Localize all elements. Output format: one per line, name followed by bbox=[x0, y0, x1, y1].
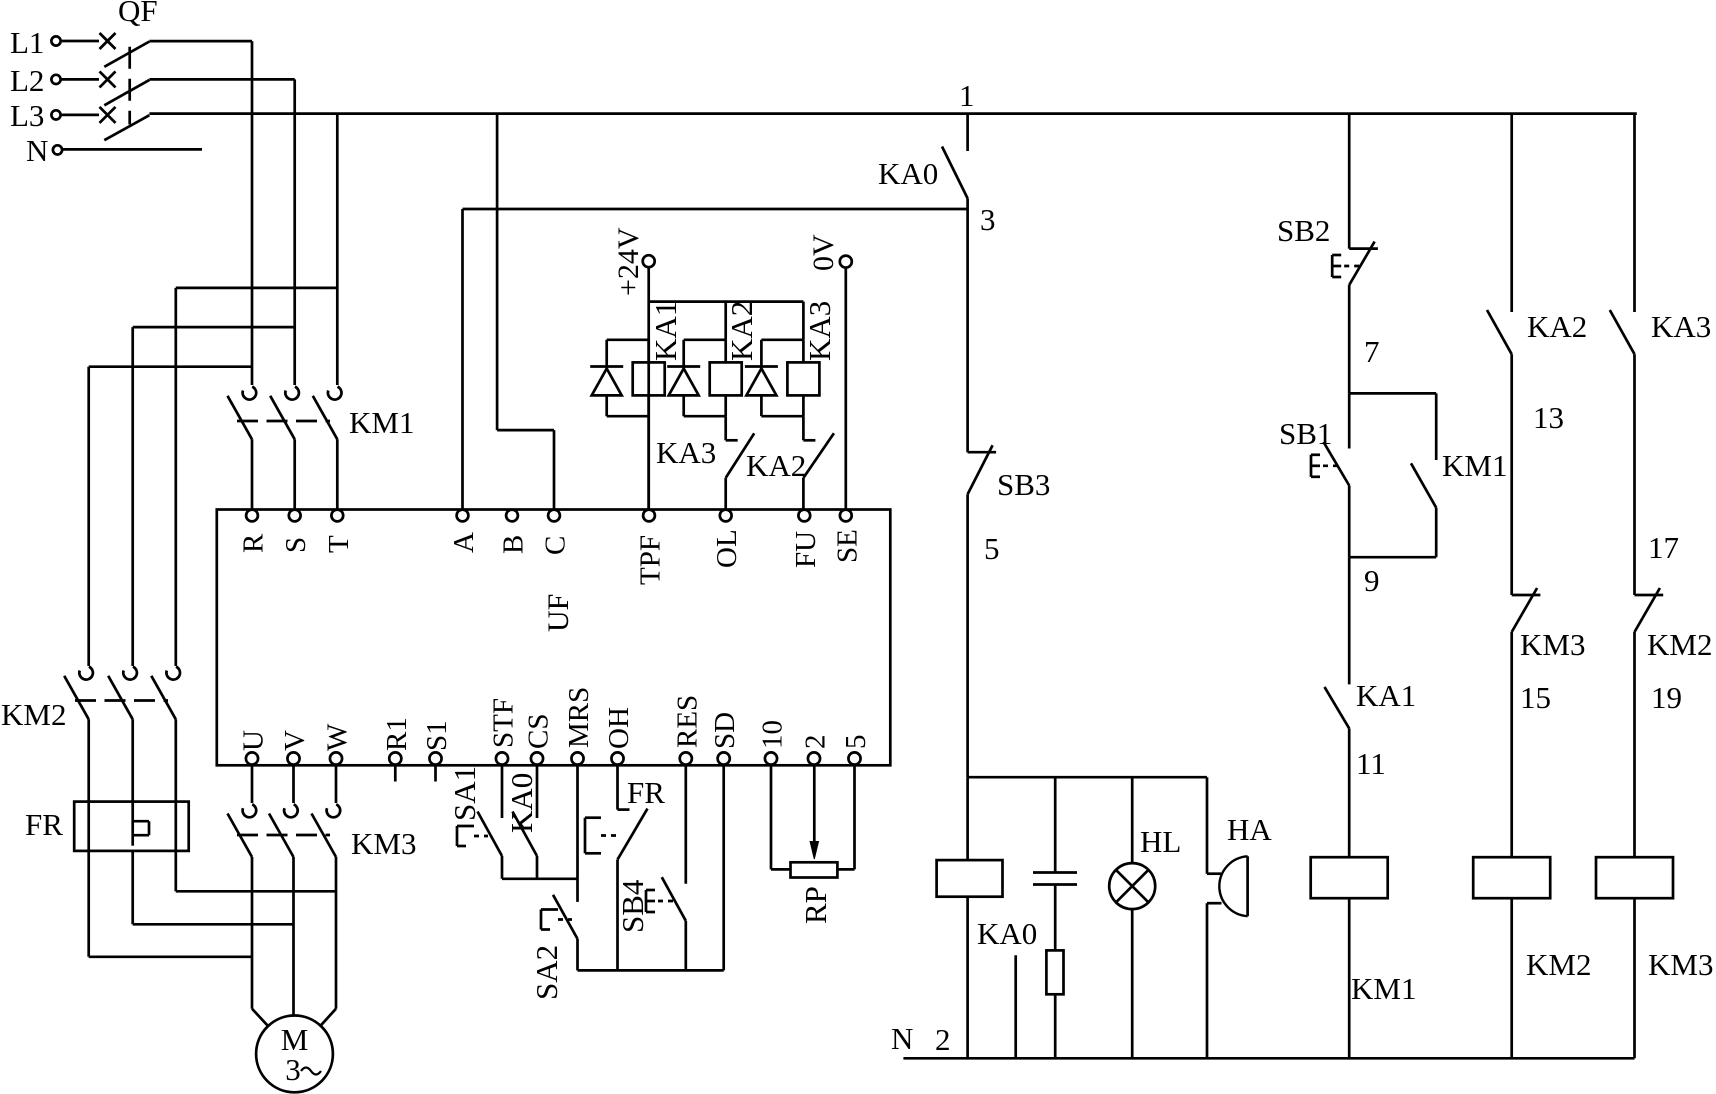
svg-text:KM1: KM1 bbox=[1442, 448, 1507, 483]
wire FR pole1 inside bbox=[87, 802, 90, 851]
wire node3 to SB3 bbox=[966, 209, 969, 452]
wire KA0 to node 3 bbox=[966, 198, 969, 209]
motor lead right bbox=[320, 1009, 336, 1027]
wire KA1 to TPF bbox=[647, 416, 650, 509]
UF terminal OH bbox=[603, 707, 635, 765]
svg-text:STF: STF bbox=[488, 698, 520, 748]
svg-text:13: 13 bbox=[1533, 400, 1564, 435]
wire KM2 pole 3 to FR bbox=[174, 719, 177, 801]
relay contact KA0 (NO) on CS bbox=[513, 812, 538, 857]
thermal relay contact FR (NC) on OH bbox=[618, 809, 648, 860]
svg-text:A: A bbox=[448, 532, 480, 553]
svg-text:SB1: SB1 bbox=[1279, 416, 1332, 451]
wire T phase tap bbox=[336, 114, 339, 385]
relay contact KA1 (NO) bbox=[1325, 687, 1350, 729]
selector switch SA2 (NO) on MRS bbox=[553, 895, 578, 939]
UF terminal R1 bbox=[381, 717, 413, 764]
wire KA3 to KM2 NC bbox=[1633, 354, 1636, 595]
UF terminal S bbox=[280, 510, 312, 553]
wire 0V to SE bbox=[844, 268, 847, 510]
wire KM3 coil to N bbox=[1633, 898, 1636, 1058]
wire KA3 coil drop bbox=[802, 302, 805, 340]
UF terminal C bbox=[540, 510, 572, 555]
svg-text:7: 7 bbox=[1364, 334, 1380, 369]
pushbutton SB1 (NO) bbox=[1324, 442, 1350, 486]
potentiometer RP body bbox=[791, 862, 838, 877]
svg-text:SD: SD bbox=[709, 712, 741, 749]
UF terminal TPF bbox=[635, 510, 667, 585]
breaker QF pole 3 blade bbox=[104, 115, 149, 140]
svg-text:U: U bbox=[238, 730, 270, 751]
svg-text:SB4: SB4 bbox=[615, 879, 650, 933]
svg-text:B: B bbox=[498, 535, 530, 554]
contactor interlock KM3 (NC) bbox=[1512, 588, 1541, 632]
wire FR3 to W junction bbox=[176, 851, 336, 891]
wire bottom junction bus bbox=[578, 969, 724, 972]
wire capacitor branch top bbox=[1054, 777, 1057, 872]
UF terminal 2 bbox=[800, 735, 832, 765]
svg-text:KM2: KM2 bbox=[1, 697, 66, 732]
wire 2 wiper bbox=[813, 765, 816, 843]
svg-text:N: N bbox=[26, 133, 48, 168]
wire KA2 coil drop bbox=[724, 302, 727, 340]
svg-text:SE: SE bbox=[831, 529, 863, 563]
stub wire at KA0 bbox=[1014, 955, 1017, 1058]
svg-text:R1: R1 bbox=[381, 717, 413, 751]
wire bus to KA2 contact bbox=[1510, 114, 1513, 312]
svg-text:L1: L1 bbox=[10, 25, 44, 60]
bottom bus wire 2 (N) bbox=[903, 1057, 1634, 1060]
contactor KM3 main contact pole 1 bbox=[228, 804, 257, 857]
svg-text:KA3: KA3 bbox=[802, 301, 837, 361]
svg-text:KA2: KA2 bbox=[724, 301, 759, 361]
svg-text:+24V: +24V bbox=[612, 227, 645, 296]
svg-text:V: V bbox=[279, 730, 311, 751]
svg-text:9: 9 bbox=[1364, 563, 1380, 598]
svg-text:W: W bbox=[322, 723, 354, 751]
svg-text:1: 1 bbox=[959, 78, 975, 113]
wire junction bus STF-CS-MRS bbox=[502, 877, 578, 880]
svg-text:KA2: KA2 bbox=[1527, 309, 1587, 344]
wire KM1 coil to N bbox=[1348, 898, 1351, 1058]
svg-text:KM3: KM3 bbox=[1520, 627, 1585, 662]
svg-text:KA2: KA2 bbox=[746, 448, 806, 483]
breaker QF pole 1 blade bbox=[104, 42, 149, 67]
pushbutton SB2 (NC) bbox=[1349, 242, 1378, 285]
wire KM3 pole3 to motor bbox=[335, 857, 338, 1009]
terminal N bbox=[26, 133, 62, 168]
SB2 actuator bbox=[1332, 255, 1359, 277]
svg-text:KM2: KM2 bbox=[1526, 947, 1591, 982]
wire KA3 unit down bbox=[802, 416, 805, 440]
svg-text:KA3: KA3 bbox=[656, 435, 716, 470]
motor lead left bbox=[252, 1009, 268, 1027]
UF terminal SE bbox=[831, 510, 863, 563]
relay contact KA3 (NC) on OL bbox=[726, 433, 755, 478]
svg-text:L2: L2 bbox=[10, 63, 44, 98]
wire KM3 NC to KM2 coil bbox=[1510, 632, 1513, 857]
svg-text:2: 2 bbox=[935, 1022, 951, 1057]
svg-text:KM2: KM2 bbox=[1647, 627, 1712, 662]
svg-text:SB2: SB2 bbox=[1277, 213, 1330, 248]
wire W down bbox=[335, 765, 338, 803]
motor M circle bbox=[256, 1016, 333, 1093]
wire C tap from bus bbox=[497, 114, 554, 510]
wire A to node 3 bbox=[463, 209, 968, 510]
svg-text:HA: HA bbox=[1227, 812, 1272, 847]
KM1 mechanical link bbox=[237, 420, 330, 423]
wire SB1 top bbox=[1348, 393, 1351, 448]
wire SA2 down bbox=[576, 939, 579, 971]
UF terminal 10 bbox=[757, 720, 789, 765]
svg-text:RES: RES bbox=[671, 695, 703, 748]
wire branch R to KM2 pole 1 bbox=[89, 367, 252, 666]
svg-text:TPF: TPF bbox=[635, 535, 667, 585]
svg-text:FR: FR bbox=[25, 807, 63, 842]
contactor coil KM2 bbox=[1473, 857, 1550, 898]
svg-text:KA3: KA3 bbox=[1651, 309, 1711, 344]
relay coil KA0 bbox=[937, 860, 1003, 897]
relay contact KA3 (NO) bbox=[1610, 310, 1635, 354]
wire KM2 pole 1 to FR bbox=[87, 719, 90, 801]
svg-text:3: 3 bbox=[285, 1052, 301, 1087]
FR heater element bbox=[133, 802, 149, 846]
wire L2 to S phase bbox=[149, 79, 294, 385]
wire HA top bbox=[1207, 777, 1221, 874]
contactor coil KM1 bbox=[1311, 857, 1388, 898]
wire HL top bbox=[1131, 777, 1134, 863]
wire KA0 down bbox=[536, 856, 539, 879]
svg-text:KA0: KA0 bbox=[977, 916, 1037, 951]
horn HA bbox=[1219, 856, 1247, 916]
wire KM3 pole2 to motor bbox=[292, 857, 295, 1016]
svg-text:QF: QF bbox=[118, 0, 158, 28]
breaker QF mechanical link bbox=[128, 47, 131, 125]
terminal 0V bbox=[807, 234, 852, 271]
relay contact KA2 (NC) on FU bbox=[803, 433, 834, 478]
svg-text:KM3: KM3 bbox=[1648, 947, 1713, 982]
UF terminal S1 bbox=[421, 720, 453, 764]
contactor KM2 main contact pole 2 bbox=[108, 667, 137, 720]
UF terminal W bbox=[322, 723, 354, 765]
wire U down bbox=[251, 765, 254, 803]
relay coil KA2 bbox=[710, 340, 742, 416]
svg-text:5: 5 bbox=[840, 735, 872, 750]
svg-text:R: R bbox=[238, 533, 270, 553]
wire node7 to KM1 aux bbox=[1349, 393, 1436, 460]
wire KM2 NC to KM3 coil bbox=[1633, 632, 1636, 857]
UF terminal 5 bbox=[840, 735, 872, 765]
wire RES down bbox=[684, 765, 687, 884]
UF terminal OL bbox=[711, 510, 743, 568]
wire 10 down bbox=[771, 765, 791, 870]
wire OH down bbox=[616, 765, 619, 810]
wire STF down bbox=[501, 765, 504, 818]
relay coil KA3 bbox=[787, 340, 819, 416]
inverter UF box bbox=[217, 510, 891, 766]
UF terminal U bbox=[238, 730, 270, 765]
wire bus to KA0 bbox=[966, 114, 969, 151]
RP wiper arrow bbox=[810, 842, 818, 860]
svg-text:15: 15 bbox=[1520, 680, 1551, 715]
svg-text:HL: HL bbox=[1140, 824, 1181, 859]
breaker QF pole 1 X mark bbox=[100, 33, 116, 49]
KM2 mechanical link bbox=[75, 699, 168, 702]
UF terminal A bbox=[448, 510, 480, 553]
wire MRS down bbox=[576, 765, 579, 902]
svg-text:T: T bbox=[323, 535, 355, 553]
resistor body bbox=[1046, 950, 1063, 994]
svg-text:C: C bbox=[540, 536, 572, 555]
svg-text:5: 5 bbox=[984, 531, 1000, 566]
wire to FU bbox=[802, 478, 805, 510]
wire KM2 coil to N bbox=[1510, 898, 1513, 1058]
terminal +24V bbox=[612, 227, 655, 296]
svg-text:KM1: KM1 bbox=[349, 405, 414, 440]
UF terminal R bbox=[238, 510, 270, 553]
SB1 actuator bbox=[1311, 455, 1338, 477]
contactor KM2 main contact pole 1 bbox=[64, 667, 93, 720]
wire FR down bbox=[616, 860, 619, 971]
UF terminal V bbox=[279, 730, 311, 765]
UF terminal B bbox=[498, 510, 530, 554]
wire SA1 down bbox=[501, 856, 504, 879]
wire lamp sub-bus bbox=[968, 776, 1207, 779]
wire V down bbox=[292, 765, 295, 803]
svg-text:S: S bbox=[280, 537, 312, 553]
contactor coil KM3 bbox=[1596, 857, 1673, 898]
wire SD down bbox=[722, 765, 725, 971]
svg-text:OH: OH bbox=[603, 707, 635, 749]
wire KM1 pole 3 to T bbox=[336, 439, 339, 509]
wire KA2 unit down bbox=[724, 416, 727, 440]
wire KM2 pole 2 to FR bbox=[131, 719, 134, 801]
relay contact KA0 (NO) top bbox=[942, 147, 968, 199]
SA2 actuator bbox=[541, 910, 572, 930]
wire node9 down bbox=[1348, 557, 1351, 684]
svg-text:MRS: MRS bbox=[563, 687, 595, 748]
wire KA2 to KM3 NC bbox=[1510, 354, 1513, 595]
svg-text:SB3: SB3 bbox=[997, 467, 1050, 502]
contactor KM3 main contact pole 3 bbox=[312, 804, 341, 857]
diode D1 loop bbox=[590, 340, 649, 416]
wire N bbox=[63, 148, 203, 151]
R1 stub bbox=[394, 765, 397, 781]
UF terminal T bbox=[323, 510, 355, 553]
relay coil KA1 bbox=[633, 340, 665, 416]
svg-text:KA1: KA1 bbox=[1356, 678, 1416, 713]
svg-text:11: 11 bbox=[1356, 746, 1386, 781]
FR release actuator bbox=[585, 818, 616, 854]
svg-text:KA0: KA0 bbox=[878, 156, 938, 191]
wire FR1 to U junction bbox=[89, 851, 252, 957]
contactor aux contact KM1 (NO) bbox=[1411, 463, 1436, 507]
wire SB3 down bbox=[966, 494, 969, 777]
contactor KM1 main contact pole 3 bbox=[313, 387, 342, 440]
KM3 mechanical link bbox=[237, 834, 330, 837]
wire +24V to TPF bbox=[647, 267, 650, 509]
svg-text:19: 19 bbox=[1651, 680, 1682, 715]
contactor KM1 main contact pole 2 bbox=[270, 387, 299, 440]
wire SB1 to node 9 bbox=[1348, 486, 1351, 558]
svg-text:CS: CS bbox=[523, 714, 555, 749]
wire KM1 aux to node 9 bbox=[1349, 508, 1436, 558]
wire HL to N bbox=[1131, 909, 1134, 1058]
wire FR2 to V junction bbox=[133, 851, 294, 924]
svg-text:L3: L3 bbox=[10, 98, 44, 133]
contactor KM3 main contact pole 2 bbox=[269, 804, 298, 857]
wire bus to KA3 contact bbox=[1633, 114, 1636, 312]
svg-text:SA2: SA2 bbox=[529, 945, 564, 1000]
svg-text:KA1: KA1 bbox=[648, 301, 683, 361]
svg-text:3: 3 bbox=[980, 202, 996, 237]
wire KA0 coil to N bbox=[966, 897, 969, 1059]
top bus wire 1 (L3) bbox=[149, 112, 1636, 115]
wire KM1 pole 2 to S bbox=[293, 439, 296, 509]
wire SB4 down bbox=[684, 921, 687, 971]
capacitor plates bbox=[1033, 873, 1077, 885]
wire KM1 pole 1 to R bbox=[251, 439, 254, 509]
terminal L1 bbox=[10, 25, 99, 60]
svg-text:10: 10 bbox=[757, 720, 789, 749]
wire to KA0 coil bbox=[966, 777, 969, 860]
svg-text:FR: FR bbox=[627, 775, 665, 810]
SB4 actuator bbox=[646, 890, 673, 912]
svg-text:OL: OL bbox=[711, 529, 743, 568]
diode D3 loop bbox=[745, 340, 804, 416]
terminal L2 bbox=[10, 63, 99, 98]
terminal L3 bbox=[10, 98, 99, 133]
thermal relay FR box bbox=[74, 802, 189, 851]
wire branch S to KM2 pole 2 bbox=[133, 327, 295, 666]
svg-text:RP: RP bbox=[798, 886, 833, 924]
wire KA1 to KM1 coil bbox=[1348, 728, 1351, 857]
UF terminal RES bbox=[671, 695, 703, 765]
contactor KM1 main contact pole 1 bbox=[228, 387, 257, 440]
wire capacitor to resistor bbox=[1054, 885, 1057, 951]
wire 5 down bbox=[837, 765, 854, 870]
breaker QF pole 2 blade bbox=[104, 80, 149, 105]
breaker QF pole 3 X mark bbox=[100, 107, 116, 123]
diode D2 loop bbox=[667, 340, 726, 416]
wire CS down bbox=[536, 765, 539, 818]
wire resistor to N bbox=[1054, 994, 1057, 1058]
svg-text:N: N bbox=[891, 1021, 913, 1056]
svg-text:SA1: SA1 bbox=[447, 766, 482, 821]
pushbutton SB3 (NC) bbox=[968, 445, 997, 494]
wire HA bottom bbox=[1207, 903, 1222, 1058]
pushbutton SB4 (NO) on RES bbox=[662, 877, 686, 921]
breaker QF pole 2 X mark bbox=[100, 71, 116, 87]
wire branch T to KM2 pole 3 bbox=[176, 288, 337, 666]
lamp HL bbox=[1109, 863, 1155, 909]
svg-text:0V: 0V bbox=[807, 234, 840, 271]
relay contact KA2 (NO) bbox=[1487, 310, 1512, 354]
contactor interlock KM2 (NC) bbox=[1635, 588, 1664, 632]
svg-text:KM1: KM1 bbox=[1351, 971, 1416, 1006]
UF terminal SD bbox=[709, 712, 741, 765]
contactor KM2 main contact pole 3 bbox=[151, 667, 180, 720]
wire bus to SB2 bbox=[1348, 114, 1351, 249]
SA1 actuator bbox=[457, 826, 488, 846]
UF terminal MRS bbox=[563, 687, 595, 765]
wire to OL bbox=[724, 478, 727, 510]
svg-text:2: 2 bbox=[800, 735, 832, 750]
UF terminal STF bbox=[488, 698, 520, 765]
UF terminal FU bbox=[790, 510, 822, 568]
wire KM3 pole1 to motor bbox=[251, 857, 254, 1009]
UF terminal CS bbox=[523, 714, 555, 765]
svg-text:KM3: KM3 bbox=[351, 826, 416, 861]
svg-text:S1: S1 bbox=[421, 720, 453, 751]
svg-text:KA0: KA0 bbox=[504, 773, 539, 833]
wire SB2 to node 7 bbox=[1348, 285, 1351, 393]
svg-text:17: 17 bbox=[1648, 530, 1679, 565]
wire L1 to R phase bbox=[149, 41, 252, 385]
selector switch SA1 (NO) on STF bbox=[478, 812, 503, 857]
relay supply bus bbox=[649, 300, 804, 303]
wire FR pole3 inside bbox=[174, 802, 177, 851]
svg-text:FU: FU bbox=[790, 531, 822, 568]
S1 stub bbox=[434, 765, 437, 781]
svg-text:UF: UF bbox=[542, 594, 575, 632]
